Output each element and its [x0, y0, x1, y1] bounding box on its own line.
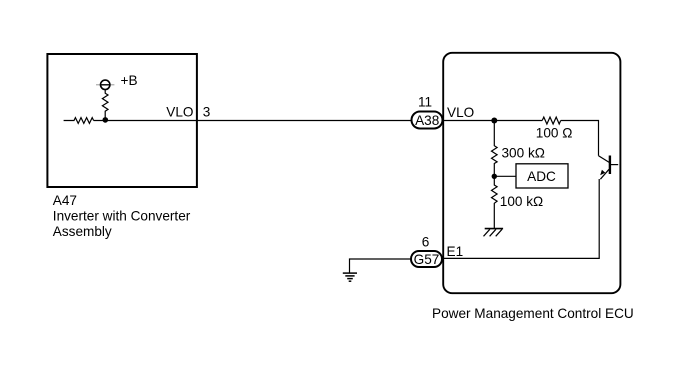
- label A47: [53, 193, 77, 208]
- svg-text:VLO: VLO: [166, 105, 193, 120]
- svg-text:Inverter with Converter: Inverter with Converter: [53, 209, 191, 224]
- svg-text:A47: A47: [53, 193, 77, 208]
- resistor 100 kohm: [492, 176, 498, 228]
- resistor pull-up in A47: [102, 90, 108, 118]
- svg-text:Power Management Control ECU: Power Management Control ECU: [432, 306, 634, 321]
- wire VLO from A47 to connector A38: [94, 120, 412, 122]
- earth ground: [343, 273, 357, 281]
- label +B: [121, 73, 138, 88]
- svg-text:6: 6: [422, 235, 430, 250]
- svg-text:100 Ω: 100 Ω: [536, 126, 573, 141]
- label VLO at ECU pin: [447, 105, 474, 120]
- connector G57: [411, 251, 442, 267]
- svg-text:11: 11: [418, 95, 432, 110]
- wire G57 to ground: [350, 259, 412, 273]
- junction node in A47: [103, 117, 109, 123]
- svg-text:ADC: ADC: [527, 169, 556, 184]
- connector A38: [412, 112, 443, 129]
- ADC block: [516, 164, 568, 188]
- label 100 ohm: [536, 126, 573, 141]
- svg-text:VLO: VLO: [447, 105, 474, 120]
- svg-text:3: 3: [203, 105, 211, 120]
- resistor 300 kohm: [492, 123, 498, 176]
- label Power Management Control ECU: [432, 306, 634, 321]
- svg-text:Assembly: Assembly: [53, 224, 112, 239]
- chassis ground at divider: [484, 229, 504, 237]
- junction node ADC tap: [492, 174, 497, 179]
- resistor series in A47: [64, 118, 94, 124]
- component box A47: [47, 54, 197, 187]
- label Assembly: [53, 224, 112, 239]
- ECU box: [443, 53, 620, 293]
- label 300 kohm: [502, 146, 545, 161]
- svg-text:100 kΩ: 100 kΩ: [500, 194, 543, 209]
- wire emitter to E1: [443, 179, 599, 258]
- power terminal +B: [96, 80, 114, 89]
- label 100 kohm: [500, 194, 543, 209]
- svg-text:300 kΩ: 300 kΩ: [502, 146, 545, 161]
- label Inverter with Converter: [53, 209, 191, 224]
- pin number 11: [418, 95, 432, 110]
- svg-text:+B: +B: [121, 73, 138, 88]
- wire to transistor collector: [561, 121, 599, 156]
- pin number 3: [203, 105, 211, 120]
- resistor 100 ohm: [542, 117, 561, 124]
- label E1: [447, 244, 464, 259]
- svg-text:A38: A38: [415, 113, 439, 128]
- junction node VLO divider: [491, 118, 497, 124]
- svg-text:E1: E1: [447, 244, 464, 259]
- wire to ADC: [494, 175, 516, 177]
- label ADC: [527, 169, 556, 184]
- svg-text:G57: G57: [414, 252, 440, 267]
- label VLO at A47 pin: [166, 105, 193, 120]
- transistor Q1 NPN: [599, 156, 619, 180]
- pin number 6: [422, 235, 430, 250]
- wire VLO inside ECU: [443, 120, 542, 122]
